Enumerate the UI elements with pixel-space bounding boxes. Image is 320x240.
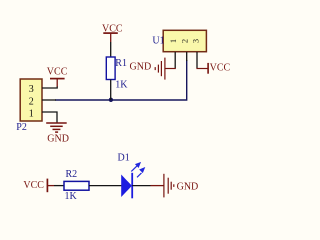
svg-text:2: 2 bbox=[29, 96, 34, 107]
svg-text:VCC: VCC bbox=[210, 63, 231, 74]
svg-text:VCC: VCC bbox=[23, 180, 44, 191]
svg-text:1: 1 bbox=[29, 108, 34, 119]
svg-text:GND: GND bbox=[47, 133, 69, 144]
svg-text:GND: GND bbox=[130, 61, 152, 72]
svg-text:R1: R1 bbox=[115, 58, 127, 69]
svg-text:D1: D1 bbox=[118, 153, 130, 164]
svg-text:P2: P2 bbox=[16, 122, 27, 133]
svg-text:U1: U1 bbox=[152, 35, 164, 46]
svg-text:1K: 1K bbox=[115, 80, 128, 91]
svg-text:1K: 1K bbox=[65, 191, 78, 202]
svg-text:1: 1 bbox=[169, 39, 178, 43]
svg-text:3: 3 bbox=[29, 84, 34, 95]
svg-text:3: 3 bbox=[192, 39, 201, 43]
svg-text:GND: GND bbox=[177, 181, 199, 192]
svg-text:R2: R2 bbox=[66, 169, 78, 180]
svg-text:2: 2 bbox=[181, 39, 190, 43]
svg-text:VCC: VCC bbox=[47, 66, 68, 77]
